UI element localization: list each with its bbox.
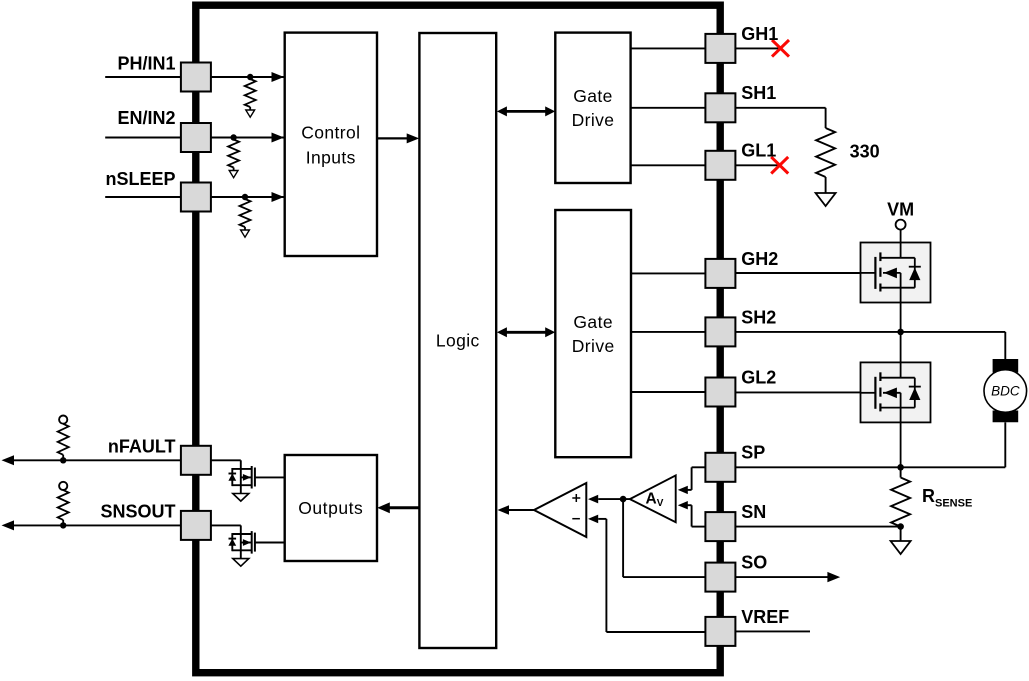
wire: SP stub to Av + input [678,467,706,494]
block: Control Inputs U-CTRL [285,33,377,256]
svg-text:nSLEEP: nSLEEP [105,169,175,189]
svg-text:GH1: GH1 [741,24,778,44]
wire: Av output down to SO pad [623,499,705,577]
label: VREF [741,607,789,627]
svg-text:SH1: SH1 [741,83,776,103]
label: SP [741,443,765,463]
wire: SN stub to Av - input [678,501,706,527]
ground: 330 resistor GND [816,193,836,206]
block: Logic [419,33,496,648]
svg-text:Control: Control [301,123,360,143]
wire: Gate Drive to GL1 pad [631,164,706,166]
wire: Q2 source down to sense node [900,422,902,467]
transistor: SNSOUT open-drain NMOS [211,525,285,558]
pin pad: GH1 [705,34,735,63]
wire: Gate Drive to GH2 pad [631,272,706,274]
svg-text:GL1: GL1 [741,141,776,161]
wire: VREF to comparator - input [588,515,705,632]
pin pad: GH2 [705,259,735,288]
pin pad: SNSOUT [181,511,211,540]
node: SN junction dot [897,523,904,530]
transistor: nFAULT open-drain NMOS [211,460,285,493]
wire: nFAULT external lead with arrow [2,455,181,465]
svg-text:Inputs: Inputs [306,148,356,168]
pin pad: GL2 [705,378,735,407]
wire: SH2 to motor terminal [735,332,1005,360]
svg-text:Gate: Gate [573,86,613,106]
wire: comparator output to Logic arrow [498,505,535,515]
svg-text:GL2: GL2 [741,367,776,387]
svg-text:SN: SN [741,502,766,522]
pin pad: SO [705,563,735,592]
wire: GH1 external stub [735,47,779,49]
wire: SNSOUT external lead with arrow [2,520,181,530]
wire: GL2 to low-side FET gate [735,391,860,393]
label: SO [741,553,767,573]
resistor: SNSOUT pull-up [58,490,69,525]
wire: SH1 external to resistor [735,108,825,128]
svg-text:VM: VM [887,200,914,220]
ground: nSLEEP pull-down arrow to GND [241,230,250,237]
wire: half-bridge mid (Q1 source to Q2 drain) [900,303,902,363]
label: 330 [850,142,880,162]
label: RSENSE [922,486,972,510]
wire: Control Inputs to Logic arrow [377,133,419,143]
wire: PH/IN1 external lead [105,76,181,78]
wire: SO output with arrow [735,572,840,582]
svg-text:Gate: Gate [573,312,613,332]
ground: SNSOUT NMOS source GND [233,559,249,567]
pin pad: SP [705,453,735,482]
resistor: EN/IN2 pull-down [228,140,239,171]
wire: motor bottom to SP node [1004,422,1006,467]
wire: Gate Drive to GH1 pad [631,47,706,49]
ground: EN/IN2 pull-down arrow to GND [229,171,238,178]
svg-text:VREF: VREF [741,607,789,627]
svg-text:Outputs: Outputs [298,498,363,518]
resistor: nSLEEP pull-down [240,199,251,230]
wire: Logic <-> Gate Drive 2 double arrow [497,327,555,337]
node: EN/IN2 junction dot [230,134,236,140]
label: GH2 [741,249,778,269]
wire: nSLEEP external lead [105,196,181,198]
motor: BDC [984,359,1027,422]
svg-text:330: 330 [850,142,880,162]
node: SP junction dot [897,464,904,471]
label: PH/IN1 [117,54,175,74]
wire: EN/IN2 pad to Control Inputs with arrow [211,133,285,143]
pin pad: SH1 [705,93,735,122]
wire: Av output to comparator + input [588,495,630,504]
node: PH/IN1 junction dot [247,74,253,80]
wire: EN/IN2 external lead [105,137,181,139]
resistor: PH/IN1 pull-down [245,79,256,110]
svg-text:BDC: BDC [991,383,1020,398]
label: VM [887,200,914,220]
svg-text:nFAULT: nFAULT [108,437,176,457]
svg-text:SH2: SH2 [741,307,776,327]
label: GL2 [741,367,776,387]
block: Gate Drive 2 (half-bridge 2) [555,210,631,457]
transistor: Q1 high-side external NMOS [861,243,931,303]
pin pad: EN/IN2 [181,123,211,152]
pin pad: VREF [705,617,735,646]
pin pad: SH2 [705,317,735,346]
no-connect: GH1 red X [772,40,789,57]
label: GL1 [741,141,776,161]
wire: Logic to Outputs arrow [377,502,419,513]
comparator: current limit comparator [534,483,586,537]
svg-text:Logic: Logic [436,330,480,350]
pin pad: nSLEEP [181,183,211,212]
wire: Gate Drive to SH1 pad [631,107,706,109]
pin pad: GL1 [705,151,735,180]
svg-text:PH/IN1: PH/IN1 [117,54,175,74]
pin pad: PH/IN1 [181,63,211,92]
resistor: RSENSE [891,467,910,526]
svg-text:GH2: GH2 [741,249,778,269]
wire: SN to sense bottom [735,526,900,528]
ground: PH/IN1 pull-down arrow to GND [246,110,255,117]
node: Av output junction dot [620,496,627,503]
device outline (IC boundary) [196,5,720,673]
label: nFAULT [108,437,176,457]
svg-text:Drive: Drive [572,336,615,356]
label: GH1 [741,24,778,44]
wire: GH2 to high-side FET gate [735,272,860,274]
block: Gate Drive 1 (half-bridge 1) [555,33,630,183]
pin pad: SN [705,512,735,541]
label: SH2 [741,307,776,327]
no-connect: GL1 red X [771,157,788,174]
ground: nFAULT NMOS source GND [233,494,249,502]
op-amp: Av sense amplifier [630,475,676,522]
node: nFAULT junction dot [60,457,66,463]
svg-text:Drive: Drive [572,110,615,130]
wire: GL1 external stub [735,164,778,166]
resistor: nFAULT pull-up [58,424,69,461]
block: Outputs [285,455,377,561]
pin pad: nFAULT [181,446,211,475]
wire: VM to high-side FET drain [900,230,902,243]
wire: SP to sense node and motor [735,466,1005,468]
wire: Gate Drive to GL2 pad [631,391,706,393]
wire: sense bottom to GND [900,527,902,541]
svg-text:EN/IN2: EN/IN2 [117,108,175,128]
ground: sense GND [891,541,911,554]
svg-text:SO: SO [741,553,767,573]
label: EN/IN2 [117,108,175,128]
terminal: SNSOUT pull-up open circle [59,482,67,490]
terminal: nFAULT pull-up open circle [59,416,67,424]
wire: PH/IN1 pad to Control Inputs with arrow [211,72,285,82]
label: nSLEEP [105,169,175,189]
transistor: Q2 low-side external NMOS [861,362,931,422]
node: SNSOUT junction dot [60,522,66,528]
resistor: 330 load on SH1 [816,128,835,193]
label: SN [741,502,766,522]
node: nSLEEP junction dot [242,194,248,200]
svg-text:SP: SP [741,443,765,463]
label: SH1 [741,83,776,103]
wire: VREF external lead [735,630,810,632]
svg-text:SNSOUT: SNSOUT [100,502,175,522]
terminal: VM open circle [896,220,906,230]
wire: Logic <-> Gate Drive 1 double arrow [497,106,555,116]
wire: Gate Drive to SH2 pad [631,331,706,333]
node: SH2 junction dot [897,329,904,336]
label: SNSOUT [100,502,175,522]
wire: nSLEEP pad to Control Inputs with arrow [211,192,285,202]
